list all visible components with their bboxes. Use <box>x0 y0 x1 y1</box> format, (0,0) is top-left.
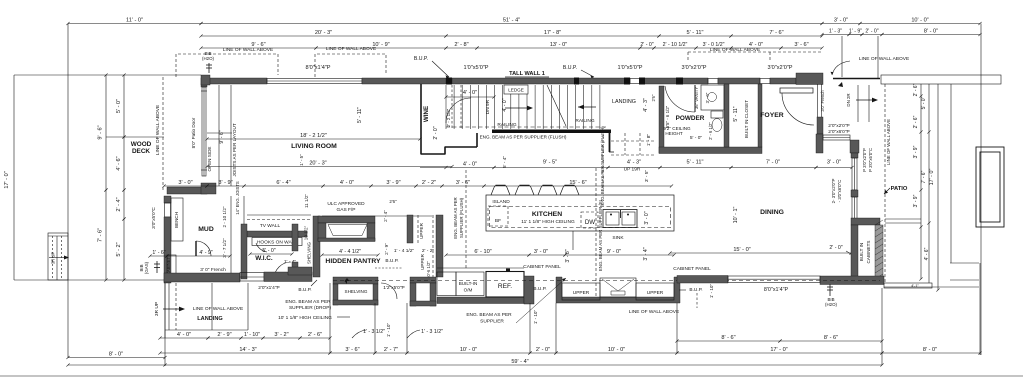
bottom border line <box>0 375 1023 377</box>
nook hatched right <box>875 225 883 278</box>
top window 1'0x5'0P b <box>630 79 642 84</box>
dim 8'-0 bl <box>66 356 166 359</box>
svg-text:15' - 0": 15' - 0" <box>733 247 750 253</box>
svg-text:3R UP: 3R UP <box>154 302 160 316</box>
svg-text:8' - 0": 8' - 0" <box>923 347 937 353</box>
dim 5'-0 wic <box>248 252 293 255</box>
tv wall dashes <box>247 214 311 216</box>
top window 8'0x1'4P <box>267 79 362 84</box>
svg-text:2' - 2": 2' - 2" <box>422 180 436 186</box>
svg-text:LINE OF WALL ABOVE: LINE OF WALL ABOVE <box>710 47 760 53</box>
dim row1 10'-0" <box>858 22 981 25</box>
svg-text:11 1/2": 11 1/2" <box>304 194 309 208</box>
svg-text:BENCH: BENCH <box>174 212 179 228</box>
foyer east french door <box>817 84 819 117</box>
svg-text:2- 3'0"x2'0"P: 2- 3'0"x2'0"P <box>831 179 836 204</box>
svg-text:3' - 4": 3' - 4" <box>643 247 649 260</box>
svg-text:B.U.P.: B.U.P. <box>385 258 398 264</box>
svg-text:5' - 4": 5' - 4" <box>502 156 508 169</box>
svg-text:FOYER: FOYER <box>760 112 784 119</box>
svg-text:JOISTS AS PER LAYOUT: JOISTS AS PER LAYOUT <box>232 123 237 176</box>
left vert 68 <box>67 24 69 359</box>
powder left wall <box>659 86 664 153</box>
svg-text:17' - 8": 17' - 8" <box>544 30 561 36</box>
svg-text:(GAS): (GAS) <box>144 261 149 274</box>
dim row2 1'-9" <box>847 33 863 36</box>
landing verticals <box>164 283 166 338</box>
dim row2 7'-6" <box>729 34 823 37</box>
svg-text:SINK: SINK <box>612 235 624 241</box>
island outline <box>486 195 674 231</box>
fireplace trapezoid <box>328 225 367 236</box>
mud dim aux line <box>230 196 232 275</box>
svg-text:7' - 6": 7' - 6" <box>769 30 783 36</box>
beam dash left <box>465 170 467 270</box>
svg-text:6' - 10": 6' - 10" <box>474 249 491 255</box>
left wall top piece <box>201 84 207 87</box>
dim row3 2'-0" <box>638 46 655 49</box>
svg-text:4' - 0": 4' - 0" <box>463 90 477 96</box>
deck mid tick line <box>106 136 164 138</box>
beam step down <box>609 133 611 152</box>
dim row y165 <box>492 166 609 169</box>
svg-text:5' - 0": 5' - 0" <box>690 135 703 141</box>
wine step <box>444 147 446 155</box>
island inner dashed <box>490 207 671 228</box>
dining south window <box>728 276 820 283</box>
svg-text:DINING: DINING <box>760 209 784 216</box>
svg-text:3' - 6": 3' - 6" <box>794 42 808 48</box>
svg-text:9' - 6": 9' - 6" <box>219 130 225 143</box>
dim 3'-0 k <box>527 253 566 256</box>
svg-text:1' - 3 1/2": 1' - 3 1/2" <box>421 329 443 335</box>
upper cab pantry <box>407 215 413 243</box>
bench <box>171 198 183 241</box>
svg-text:2' - 0": 2' - 0" <box>536 347 550 353</box>
svg-text:TV WALL: TV WALL <box>260 223 281 229</box>
svg-text:5'5" - 6 1/2": 5'5" - 6 1/2" <box>665 105 670 128</box>
eng beam flush bar <box>492 130 611 134</box>
top window closet <box>760 79 770 84</box>
svg-text:(H2O): (H2O) <box>825 302 837 307</box>
bottom wall mud <box>164 273 240 282</box>
svg-text:B.U.P.: B.U.P. <box>414 56 428 62</box>
svg-text:CABINET PANEL: CABINET PANEL <box>523 264 561 270</box>
svg-text:GAS F/P: GAS F/P <box>337 207 356 213</box>
svg-text:4' - 4 1/2": 4' - 4 1/2" <box>339 249 361 255</box>
stair arrow left <box>578 106 596 108</box>
svg-text:LANDING: LANDING <box>612 99 636 105</box>
dim 3'-0 mid <box>814 166 853 169</box>
svg-text:7' - 6": 7' - 6" <box>921 170 927 183</box>
dim row3 3'-6" <box>779 46 823 49</box>
top wall post <box>446 78 452 85</box>
svg-text:1'2"x5'0"P: 1'2"x5'0"P <box>383 285 405 291</box>
left property line <box>13 75 15 280</box>
svg-text:SHELVING: SHELVING <box>307 241 312 263</box>
deck vert line 219 <box>218 85 220 186</box>
svg-text:2' - 2 1/2": 2' - 2 1/2" <box>446 108 451 127</box>
deck steps 3R <box>48 233 68 280</box>
dim 3'-0 lr <box>162 184 208 187</box>
svg-text:6' - 4": 6' - 4" <box>276 180 290 186</box>
svg-text:P 3'0"x2'0"P: P 3'0"x2'0"P <box>862 148 867 172</box>
dim 8'-6 b1 <box>675 339 781 342</box>
dim 1'-6 mud <box>148 254 168 257</box>
svg-text:5' - 0": 5' - 0" <box>921 96 927 109</box>
svg-text:17' - 0": 17' - 0" <box>770 347 787 353</box>
dashed box B <box>315 54 386 77</box>
svg-text:3' - 5": 3' - 5" <box>644 170 650 183</box>
wic north wall <box>247 231 307 237</box>
wine left wall <box>420 84 422 154</box>
svg-text:W.I.C.: W.I.C. <box>255 255 273 262</box>
svg-text:LINE OF WALL ABOVE: LINE OF WALL ABOVE <box>326 46 376 52</box>
island ext line <box>572 231 574 250</box>
svg-text:4' - 3": 4' - 3" <box>643 98 649 112</box>
svg-text:REF.: REF. <box>498 283 512 290</box>
powder right wall <box>724 84 729 147</box>
dim row2 2'-0" <box>860 33 883 36</box>
east window 1 <box>852 158 857 190</box>
svg-text:ENG. BEAM AS PER SUPPLIER (FLU: ENG. BEAM AS PER SUPPLIER (FLUSH) <box>600 126 605 206</box>
deck bottom edge <box>14 279 164 281</box>
pantry east wall <box>436 215 443 277</box>
svg-text:3' - 8": 3' - 8" <box>565 249 571 262</box>
svg-text:7' - 0": 7' - 0" <box>766 160 780 166</box>
svg-text:RAILING: RAILING <box>497 122 516 128</box>
svg-text:ISLAND: ISLAND <box>492 199 510 205</box>
right pillar box <box>976 147 1004 227</box>
svg-text:2' - 0": 2' - 0" <box>433 126 439 139</box>
dim row2 20'-3" <box>199 34 447 37</box>
dim 2'-6 b <box>298 336 331 339</box>
svg-text:1' - 6": 1' - 6" <box>152 250 165 256</box>
svg-text:10' - 0": 10' - 0" <box>460 347 477 353</box>
svg-text:9' - 6": 9' - 6" <box>251 42 265 48</box>
east wall post1 <box>851 153 858 158</box>
top wall seg3 <box>452 78 630 84</box>
svg-text:1' - 3 1/2": 1' - 3 1/2" <box>363 329 385 335</box>
svg-text:1' - 9": 1' - 9" <box>849 28 862 34</box>
svg-text:3'0"x2'0"P: 3'0"x2'0"P <box>767 65 792 71</box>
svg-text:2'0"x1'4"P: 2'0"x1'4"P <box>258 285 280 291</box>
dim 7'-0 mid <box>729 166 817 169</box>
closet door arc <box>381 283 397 299</box>
svg-text:36" VANITY: 36" VANITY <box>694 87 699 109</box>
svg-text:P 3'0"x6'0"C: P 3'0"x6'0"C <box>868 148 873 172</box>
svg-text:BF: BF <box>495 218 501 224</box>
dim 6'-10 <box>444 253 530 256</box>
svg-text:18' - 2 1/2": 18' - 2 1/2" <box>300 133 327 139</box>
dim 9'-0 <box>563 253 675 256</box>
svg-text:BUILT-IN: BUILT-IN <box>459 281 478 286</box>
top wall seg1 <box>201 78 267 84</box>
svg-text:HIDDEN PANTRY: HIDDEN PANTRY <box>325 258 381 265</box>
svg-text:3' - 6": 3' - 6" <box>345 347 359 353</box>
wine bottom wall <box>421 153 446 155</box>
dim 10'-0 b1 <box>405 351 531 354</box>
svg-text:8' - 0": 8' - 0" <box>924 28 938 34</box>
dim 4'-9 mud <box>165 254 231 257</box>
svg-text:17' - 0": 17' - 0" <box>4 171 10 188</box>
dim row3 4'-0" <box>729 46 782 49</box>
bottom wall wic <box>264 272 312 282</box>
dim 6'-4 lr <box>242 184 324 187</box>
svg-text:3'0" French: 3'0" French <box>820 90 825 112</box>
svg-text:2' - 9": 2' - 9" <box>217 332 231 338</box>
svg-text:5' - 0": 5' - 0" <box>116 99 122 113</box>
svg-text:3' - 9": 3' - 9" <box>913 145 919 158</box>
svg-text:1' - 5": 1' - 5" <box>299 154 304 166</box>
svg-text:HOOKS ON WALL: HOOKS ON WALL <box>257 240 297 246</box>
dim 2'-0 b <box>528 351 557 354</box>
svg-text:1' - 10": 1' - 10" <box>386 323 391 338</box>
powder toilet <box>711 111 723 118</box>
svg-text:LINE OF WALL ABOVE: LINE OF WALL ABOVE <box>193 306 243 312</box>
stair railing dashes <box>446 126 608 128</box>
landing dash steps <box>611 140 655 142</box>
svg-text:2 - 10 1/2": 2 - 10 1/2" <box>222 206 227 227</box>
svg-text:3' - 2": 3' - 2" <box>274 332 288 338</box>
svg-text:7' - 6": 7' - 6" <box>98 228 104 242</box>
dashed line of wall above deck <box>162 77 164 190</box>
ref box <box>486 272 524 298</box>
svg-text:ENG. BEAM AS PER SUPPLIER (FLU: ENG. BEAM AS PER SUPPLIER (FLUSH) <box>480 135 567 140</box>
svg-text:ENG. BEAM AS PER: ENG. BEAM AS PER <box>453 197 458 238</box>
svg-text:17' - 0": 17' - 0" <box>929 169 935 186</box>
dim 3'-6 lr <box>440 184 485 187</box>
dim 15'-6 <box>482 184 673 187</box>
dim row3 9'-6" <box>199 46 317 49</box>
svg-text:WINE: WINE <box>423 106 430 122</box>
foyer door leaf <box>780 88 813 93</box>
dim row3 2'-8" <box>444 46 478 49</box>
upper1 box <box>562 283 600 300</box>
svg-text:(H2O): (H2O) <box>202 56 214 61</box>
top wall seg4b <box>718 78 760 84</box>
svg-text:10 1/2": 10 1/2" <box>304 225 309 240</box>
svg-text:59' - 4": 59' - 4" <box>511 359 528 365</box>
svg-text:ENG. BEAM AS PER: ENG. BEAM AS PER <box>285 299 331 305</box>
svg-text:LINE OF WALL ABOVE: LINE OF WALL ABOVE <box>223 47 273 53</box>
dim 3'-6 b <box>328 351 376 354</box>
dim row3 10'-9" <box>314 46 447 49</box>
top wall foyer corner block <box>796 73 823 85</box>
svg-text:4' - 0": 4' - 0" <box>177 332 191 338</box>
svg-text:4' - 0": 4' - 0" <box>749 42 763 48</box>
patio bottom step <box>884 283 932 288</box>
dim ext lines foyer right <box>841 36 843 77</box>
svg-text:CABINET: CABINET <box>166 256 171 275</box>
mud west wall lower <box>164 217 171 283</box>
svg-text:SHELVING: SHELVING <box>345 289 368 294</box>
svg-text:B.U.P.: B.U.P. <box>563 65 577 71</box>
bottom wall pantry <box>288 267 312 275</box>
svg-text:9' - 0": 9' - 0" <box>607 249 621 255</box>
top wall post2 <box>574 78 579 85</box>
svg-text:LIVING ROOM: LIVING ROOM <box>291 143 337 150</box>
dim row3 3'-0 1/2" <box>694 46 732 49</box>
right slab outline <box>881 75 1001 84</box>
dim 14'-3 <box>158 351 331 354</box>
bib gas symbol <box>156 261 158 273</box>
svg-text:5' - 11": 5' - 11" <box>687 30 704 36</box>
powder bottom wall <box>659 147 762 154</box>
beam dash right <box>595 168 597 300</box>
wic east wall <box>292 224 298 251</box>
east window 2 <box>852 197 857 222</box>
east wall post2 <box>851 190 858 197</box>
svg-text:20' - 3": 20' - 3" <box>309 160 326 166</box>
landing arrow <box>163 308 180 310</box>
wine door arc <box>446 98 471 123</box>
svg-text:CABINETS: CABINETS <box>866 241 871 264</box>
svg-text:2' - 8": 2' - 8" <box>454 42 468 48</box>
dim 8'-0 br <box>880 351 981 354</box>
svg-text:8'0"x1'4"P: 8'0"x1'4"P <box>305 65 330 71</box>
dim 3'-2 b <box>261 336 301 339</box>
svg-text:9' - 5": 9' - 5" <box>543 160 557 166</box>
svg-text:2' - 4": 2' - 4" <box>116 197 122 211</box>
svg-text:1'0"x5'0"P: 1'0"x5'0"P <box>463 65 488 71</box>
svg-text:OPEN SIDE: OPEN SIDE <box>207 146 212 171</box>
closet2 <box>410 277 436 283</box>
foyer south corner <box>850 140 859 153</box>
svg-text:LEDGE: LEDGE <box>508 88 524 93</box>
svg-text:KITCHEN: KITCHEN <box>532 211 562 218</box>
svg-text:3' - 9": 3' - 9" <box>218 180 232 186</box>
svg-text:5' - 0": 5' - 0" <box>262 248 275 254</box>
left vert 124 5'-2" <box>122 217 125 281</box>
svg-text:1' - 10": 1' - 10" <box>244 332 260 338</box>
mud cabinet <box>167 255 176 278</box>
dim row1 51'-4" <box>199 22 823 25</box>
stair break line <box>547 85 566 126</box>
powder vanity <box>701 85 724 110</box>
bottom window 2x1 wic <box>240 273 264 282</box>
dim 18'-2 1/2" <box>205 137 421 140</box>
svg-text:11' - 0": 11' - 0" <box>126 17 143 23</box>
dim row1 3'-0" <box>820 22 861 25</box>
left vert 124 2'-4" <box>122 188 125 220</box>
foyer east wall piece <box>817 117 823 134</box>
line of wall above right thin <box>833 78 880 80</box>
svg-text:3' - 0": 3' - 0" <box>534 249 548 255</box>
svg-text:UPPER: UPPER <box>419 222 424 239</box>
svg-text:5' - 2": 5' - 2" <box>116 242 122 256</box>
counter band left <box>437 297 524 304</box>
nook bottom wall <box>820 276 884 285</box>
svg-text:14" ENG. JOISTS: 14" ENG. JOISTS <box>235 181 240 215</box>
svg-text:1' - 10": 1' - 10" <box>533 310 538 325</box>
stair arrow right <box>505 107 528 109</box>
patio arrow <box>884 188 890 194</box>
svg-text:10' - 0": 10' - 0" <box>911 17 928 23</box>
svg-text:4' - 3": 4' - 3" <box>627 160 641 166</box>
landing right edge <box>247 283 249 330</box>
powder door leaf <box>694 85 696 112</box>
bib h2o bottom <box>829 284 831 296</box>
svg-text:HEIGHT: HEIGHT <box>665 131 683 136</box>
svg-text:UP 19R: UP 19R <box>624 167 641 173</box>
svg-text:MUD: MUD <box>198 226 214 233</box>
svg-text:LANDING: LANDING <box>197 316 222 322</box>
patio dashed line <box>884 84 886 283</box>
dim 10'-0 b2 <box>554 351 678 354</box>
right slab verticals <box>920 84 922 279</box>
pantry top line <box>322 215 432 217</box>
dim row2 1'-3" <box>820 33 850 36</box>
dim 2'-9 b <box>206 336 242 339</box>
landing bottom edge <box>165 329 248 331</box>
svg-text:DW: DW <box>585 219 595 226</box>
label HOOKS ON WALL <box>252 238 302 246</box>
svg-text:3' - 0": 3' - 0" <box>827 160 841 166</box>
svg-text:1' - 10": 1' - 10" <box>709 284 714 299</box>
svg-text:B.U.P.: B.U.P. <box>689 287 702 293</box>
island stools <box>491 185 510 195</box>
patio door glazing <box>202 87 206 176</box>
svg-text:DN 9R: DN 9R <box>485 99 491 114</box>
svg-text:3'0"x2'0"P: 3'0"x2'0"P <box>681 65 706 71</box>
svg-text:10'-6 1/2": 10'-6 1/2" <box>426 261 431 279</box>
sink <box>603 210 637 228</box>
french door arc mud <box>274 262 291 279</box>
svg-text:POWDER: POWDER <box>676 115 705 122</box>
svg-text:CABINET PANEL: CABINET PANEL <box>673 266 711 272</box>
nook left wall <box>851 225 858 283</box>
BF box <box>488 206 508 226</box>
svg-text:LINE OF WALL ABOVE: LINE OF WALL ABOVE <box>155 105 161 155</box>
svg-text:LINE OF WALL ABOVE: LINE OF WALL ABOVE <box>886 119 891 165</box>
svg-text:WOOD: WOOD <box>131 141 152 148</box>
svg-text:3R UP: 3R UP <box>51 252 56 265</box>
nook hatch lines <box>875 220 883 225</box>
svg-text:1' - 8": 1' - 8" <box>646 134 652 147</box>
base cab om <box>437 272 456 296</box>
svg-text:3' - 0": 3' - 0" <box>644 211 650 224</box>
svg-text:11' 1 1/8" HIGH CEILING: 11' 1 1/8" HIGH CEILING <box>521 219 575 225</box>
svg-text:1' - 3": 1' - 3" <box>829 28 842 34</box>
dim row1 11'-0" <box>66 22 202 25</box>
svg-text:5' - 11": 5' - 11" <box>357 107 363 123</box>
svg-text:10' - 0": 10' - 0" <box>608 347 625 353</box>
foyer dn arrow <box>856 99 873 101</box>
left vert 124 4'-6" <box>122 135 125 191</box>
foyer steps <box>857 85 859 122</box>
top wall seg4a <box>642 78 708 84</box>
svg-text:UPPER: UPPER <box>647 290 664 296</box>
ext verticals bottom <box>329 283 331 353</box>
svg-text:8' - 0": 8' - 0" <box>109 351 123 357</box>
svg-text:3' 0" French: 3' 0" French <box>200 267 226 273</box>
dim row2 17'-8" <box>444 34 660 37</box>
dim 2'-2 lr <box>414 184 443 187</box>
fireplace box <box>318 216 375 223</box>
svg-text:2' - 10 1/2": 2' - 10 1/2" <box>663 42 688 48</box>
svg-text:2'6": 2'6" <box>389 199 397 204</box>
svg-text:LINE OF WALL ABOVE: LINE OF WALL ABOVE <box>629 309 679 315</box>
deck steps arrow <box>49 257 65 259</box>
counter top edge line <box>437 267 524 269</box>
deck top edge <box>14 74 201 76</box>
svg-text:10' 1 1/8" HIGH CEILING: 10' 1 1/8" HIGH CEILING <box>278 315 332 321</box>
top window powder <box>708 79 718 84</box>
left vert 108 9'-6" <box>104 73 107 191</box>
dim 5'-11 mid <box>658 166 732 169</box>
dim 15'-0 dining <box>668 251 852 254</box>
